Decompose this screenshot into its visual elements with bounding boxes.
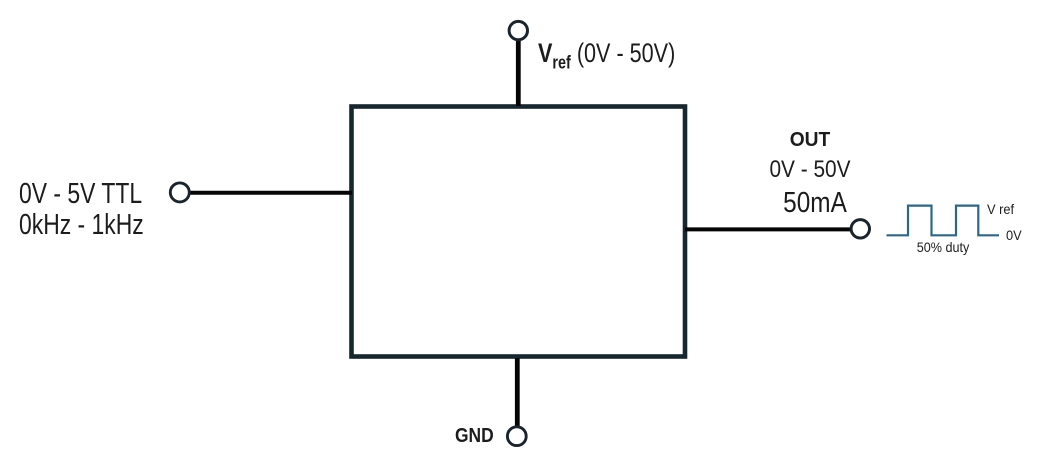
label 0V (waveform low level) (1006, 228, 1023, 243)
label OUT (789, 129, 831, 152)
wire OUT (right pin) (685, 227, 851, 231)
wire GND (bottom pin) (515, 358, 520, 427)
wire Vref (top pin to terminal) (516, 40, 521, 107)
terminal Vref (509, 21, 527, 39)
label GND (455, 424, 501, 448)
waveform 50% duty square wave (887, 206, 1000, 236)
label 50mA (output current) (777, 187, 853, 220)
terminal GND (507, 427, 526, 446)
label 50% duty (914, 239, 972, 255)
block U1 (main module body) (352, 107, 686, 357)
label 0V - 50V (output range) (762, 156, 857, 184)
label TTL input: 0V - 5V TTL / 0kHz - 1kHz (19, 179, 177, 242)
terminal OUT (851, 220, 869, 238)
wire TTL input (left pin) (191, 191, 353, 195)
label Vref (0V - 50V) (538, 40, 710, 76)
label V ref (waveform high level) (987, 202, 1016, 217)
terminal TTL input (170, 183, 189, 202)
